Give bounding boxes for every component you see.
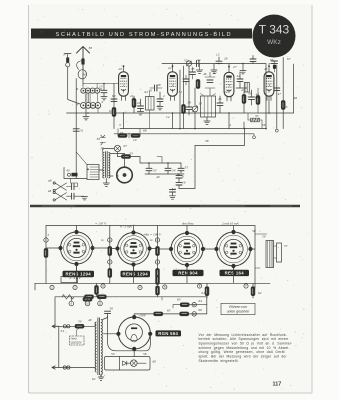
power transformer — [95, 318, 104, 381]
svg-text:14: 14 — [166, 115, 170, 119]
svg-text:41: 41 — [241, 88, 245, 92]
cap 13 to ground — [103, 84, 105, 91]
svg-text:60: 60 — [112, 94, 116, 98]
page edge right — [311, 5, 313, 393]
svg-text:117: 117 — [273, 382, 282, 388]
tube 1 — [119, 65, 129, 101]
antenna terminal blob — [81, 59, 84, 65]
svg-text:1: 1 — [123, 83, 125, 87]
svg-text:30: 30 — [188, 101, 192, 105]
svg-text:0 - 2 mA: 0 - 2 mA — [120, 224, 133, 228]
svg-text:56: 56 — [110, 307, 114, 311]
svg-text:44: 44 — [256, 93, 260, 97]
svg-text:Skalenmitte eingestellt.: Skalenmitte eingestellt. — [199, 359, 239, 363]
inter-socket columns — [110, 226, 253, 299]
coupling parts tube1-tube2 — [132, 99, 136, 108]
svg-text:= 135 V: = 135 V — [95, 221, 107, 225]
coil to ground — [85, 108, 87, 117]
drops to socket tops — [77, 226, 234, 232]
svg-text:~50V: ~50V — [139, 314, 147, 318]
svg-text:28: 28 — [157, 83, 161, 87]
svg-text:50: 50 — [78, 320, 82, 324]
bus resistors — [85, 295, 94, 299]
left info rect — [61, 277, 78, 283]
secondary tap to left pin — [103, 333, 116, 335]
svg-text:48: 48 — [294, 96, 298, 100]
tube 3 — [224, 66, 234, 102]
svg-text:7: 7 — [77, 103, 79, 107]
svg-text:110/220V: 110/220V — [70, 340, 82, 344]
svg-text:52a: 52a — [184, 59, 189, 63]
svg-text:10: 10 — [149, 89, 153, 93]
svg-text:36: 36 — [82, 73, 86, 77]
decoupling bank bus y163 — [136, 157, 181, 164]
small coil box — [146, 97, 155, 111]
output transformer 52 — [105, 152, 107, 178]
RGN 564 label plate — [156, 330, 182, 336]
svg-text:61: 61 — [109, 109, 113, 113]
resistor 53a — [122, 155, 131, 159]
svg-text:37: 37 — [63, 53, 67, 57]
svg-text:9: 9 — [102, 100, 104, 104]
svg-text:66: 66 — [270, 58, 274, 62]
tube 4 — [264, 65, 274, 101]
svg-text:5: 5 — [117, 174, 119, 178]
title bar — [31, 29, 252, 39]
svg-text:58: 58 — [252, 229, 256, 233]
svg-text:62: 62 — [258, 291, 262, 295]
svg-text:63: 63 — [196, 79, 200, 83]
tick verticals bus128 — [229, 97, 269, 129]
svg-text:RGN 564: RGN 564 — [158, 331, 178, 336]
socket tube 3 — [169, 231, 205, 267]
socket pin dots — [116, 332, 120, 336]
svg-text:60: 60 — [153, 360, 157, 364]
scan grain overlay — [31, 8, 308, 390]
page edge left — [28, 5, 30, 393]
anode feed: top dot riser and HT rail — [134, 314, 207, 317]
svg-text:5: 5 — [48, 233, 50, 237]
mains lower wire + left link — [59, 326, 95, 367]
svg-text:67: 67 — [124, 144, 128, 148]
top bus y63.5 — [162, 64, 266, 129]
svg-text:68: 68 — [143, 129, 147, 133]
svg-text:61: 61 — [202, 291, 206, 295]
svg-text:17: 17 — [172, 188, 176, 192]
svg-text:RES 164: RES 164 — [225, 271, 245, 276]
secondary top to HT via cap — [103, 313, 108, 319]
svg-text:47: 47 — [278, 92, 282, 96]
left rail — [45, 226, 47, 284]
right verticals — [277, 58, 283, 129]
svg-text:22: 22 — [168, 66, 172, 70]
svg-text:66: 66 — [199, 308, 203, 312]
column resistors — [108, 247, 112, 256]
svg-text:Netz: Netz — [71, 337, 77, 341]
svg-text:57: 57 — [284, 244, 288, 248]
left rail parts — [44, 238, 48, 242]
coil core hatch — [85, 94, 90, 103]
wire coil top to bus83 — [83, 83, 119, 85]
svg-text:31: 31 — [179, 90, 183, 94]
label plate REN 904 — [173, 270, 204, 276]
svg-text:58: 58 — [143, 352, 147, 356]
socket tube 1 — [58, 230, 94, 266]
wire antenna to coils — [82, 69, 84, 87]
svg-text:56: 56 — [262, 123, 266, 127]
socket side and bottom stubs — [46, 248, 255, 249]
svg-text:35: 35 — [191, 67, 195, 71]
svg-text:38: 38 — [89, 46, 93, 50]
svg-text:45: 45 — [264, 67, 268, 71]
svg-text:51: 51 — [80, 129, 84, 133]
wire bottom left y178.5 — [64, 168, 87, 179]
svg-text:62: 62 — [92, 377, 96, 381]
svg-text:13: 13 — [99, 85, 103, 89]
wire earth down to coils — [68, 67, 80, 104]
svg-text:4: 4 — [229, 123, 231, 127]
antenna coil pack lower — [81, 103, 101, 109]
svg-text:67: 67 — [287, 57, 291, 61]
svg-text:34: 34 — [197, 58, 201, 62]
long left vertical — [75, 79, 77, 179]
svg-text:21: 21 — [130, 94, 134, 98]
page edge bottom — [29, 392, 313, 394]
svg-text:3: 3 — [119, 123, 121, 127]
svg-text:12: 12 — [216, 53, 220, 57]
svg-text:26: 26 — [224, 57, 228, 61]
svg-text:6: 6 — [77, 87, 79, 91]
right feed bus from middle band — [206, 297, 208, 305]
mains upper wire — [59, 325, 95, 327]
svg-text:16: 16 — [182, 181, 186, 185]
primary comb box — [87, 165, 99, 180]
main bus y113 — [67, 112, 294, 114]
top feed wire of socket row — [46, 225, 255, 227]
svg-text:49: 49 — [88, 318, 92, 322]
loudspeaker — [117, 167, 133, 183]
svg-text:6: 6 — [182, 175, 184, 179]
label plate RES 164 — [220, 270, 250, 276]
svg-text:a8: a8 — [48, 179, 52, 183]
svg-text:T 343: T 343 — [259, 23, 290, 37]
primary taps to mains — [94, 322, 96, 369]
terminal circles on columns — [108, 238, 112, 242]
rectifier tube RGN socket circle — [118, 317, 150, 349]
mains plug arrows — [52, 325, 59, 369]
fuse circles — [63, 325, 66, 328]
svg-text:52: 52 — [101, 147, 105, 151]
svg-text:65: 65 — [284, 105, 288, 109]
svg-text:39: 39 — [97, 137, 101, 141]
secondary bus — [55, 297, 207, 327]
svg-text:59: 59 — [111, 352, 115, 356]
feed resistors — [180, 303, 189, 307]
svg-text:2: 2 — [163, 94, 165, 98]
right rail — [254, 226, 256, 289]
svg-text:49: 49 — [156, 175, 160, 179]
section divider rule — [30, 205, 300, 207]
cap and pill above tube4 — [272, 61, 278, 63]
svg-text:32: 32 — [213, 71, 217, 75]
wave trap 36 — [77, 61, 83, 70]
socket tube 2 — [115, 230, 151, 266]
label plate RENS 1294 (1) — [63, 271, 95, 277]
svg-text:unten gesehen: unten gesehen — [227, 309, 250, 313]
svg-text:2 mA 10 mA: 2 mA 10 mA — [222, 221, 240, 225]
speaker assembly right — [266, 241, 274, 268]
tube 2 — [168, 65, 178, 101]
transformer ground — [100, 375, 102, 378]
svg-text:54: 54 — [172, 169, 176, 173]
label plate RENS 1294 (2) — [121, 271, 151, 277]
svg-text:3: 3 — [228, 84, 230, 88]
antenna coil pack upper — [81, 88, 100, 93]
note box: tubes viewed from below — [221, 303, 255, 314]
svg-text:27: 27 — [233, 65, 237, 69]
terminal circles row under middle band — [69, 301, 74, 306]
cap 51 on left drop — [73, 129, 79, 131]
svg-text:55: 55 — [185, 166, 189, 170]
svg-text:58: 58 — [205, 139, 209, 143]
dial lamp box — [105, 357, 151, 371]
svg-text:RENS 1294: RENS 1294 — [123, 272, 149, 277]
sawtooth resistor — [62, 295, 74, 299]
left column before tube1 — [113, 84, 115, 129]
bottom pin drop to lamp box — [133, 351, 135, 357]
svg-text:+Ra = 100 V: +Ra = 100 V — [143, 233, 162, 237]
German note paragraph — [199, 333, 293, 363]
svg-text:40: 40 — [66, 169, 70, 173]
svg-text:WKz: WKz — [267, 39, 281, 46]
svg-text:64: 64 — [199, 299, 203, 303]
bottom bus — [35, 282, 270, 284]
svg-text:24: 24 — [224, 90, 228, 94]
svg-text:53: 53 — [130, 152, 134, 156]
svg-text:Am Netz: Am Netz — [181, 221, 194, 225]
svg-text:19: 19 — [133, 138, 137, 142]
cluster tube2-tube3 verticals — [179, 70, 181, 129]
staircase wire to decoupling bank — [179, 129, 245, 189]
switch contact pair — [68, 173, 71, 176]
resistors 18,19 under bus — [118, 134, 127, 138]
dial lamp 47 — [114, 145, 120, 151]
IF transformer 2 box — [201, 96, 216, 117]
bus y133.8 — [114, 134, 254, 136]
svg-text:33: 33 — [255, 114, 259, 118]
svg-text:25: 25 — [218, 97, 222, 101]
svg-text:4: 4 — [268, 83, 270, 87]
svg-text:43: 43 — [248, 92, 252, 96]
svg-text:59: 59 — [262, 235, 266, 239]
svg-text:29: 29 — [137, 101, 141, 105]
grid cap tube2 — [157, 99, 163, 101]
svg-text:42: 42 — [237, 74, 241, 78]
svg-text:54: 54 — [61, 329, 65, 333]
mains switch — [75, 324, 84, 328]
svg-text:65: 65 — [167, 309, 171, 313]
svg-text:20: 20 — [119, 67, 123, 71]
svg-text:2: 2 — [172, 83, 174, 87]
svg-text:46: 46 — [203, 72, 207, 76]
voltage selector dashed box — [70, 336, 85, 345]
top caps and grounds cluster — [216, 61, 222, 63]
svg-text:e8: e8 — [48, 189, 52, 193]
cluster tube3-tube4 — [237, 79, 243, 81]
heater loop under rectifier — [108, 316, 151, 351]
svg-text:18: 18 — [120, 131, 124, 135]
socket tube 4 — [214, 230, 252, 268]
band switch contacts — [55, 183, 67, 200]
svg-text:REN 904: REN 904 — [178, 271, 198, 276]
svg-text:SCHALTBILD UND STROM-SPANNUNGS: SCHALTBILD UND STROM-SPANNUNGS-BILD — [56, 32, 233, 38]
svg-text:63: 63 — [177, 298, 181, 302]
earth terminal — [65, 54, 72, 58]
bus y128.6 — [120, 128, 266, 130]
svg-text:15: 15 — [199, 102, 203, 106]
svg-text:11: 11 — [157, 104, 160, 108]
model badge T343 — [253, 15, 296, 58]
spark gap 39 — [100, 135, 106, 147]
svg-text:53: 53 — [153, 169, 157, 173]
antenna symbol — [77, 47, 90, 69]
terminal circles on buses — [50, 285, 54, 289]
